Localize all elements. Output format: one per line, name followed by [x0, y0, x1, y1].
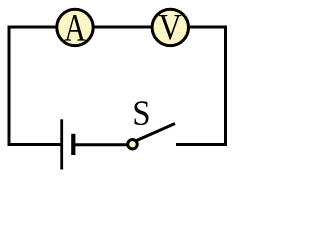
- wire: right vertical: [224, 26, 227, 147]
- voltmeter label V: [159, 15, 181, 40]
- switch S lever: [136, 124, 176, 142]
- label S: [135, 101, 149, 125]
- ammeter A circle: [57, 9, 93, 45]
- wire: bottom left to battery: [8, 143, 61, 146]
- battery long plate (positive): [60, 119, 63, 169]
- voltmeter V circle: [152, 9, 188, 45]
- wire: top horizontal: [8, 26, 228, 29]
- wire: battery to switch pivot: [75, 143, 127, 146]
- wire: left vertical: [8, 26, 11, 147]
- wire: bottom right stub: [176, 143, 227, 146]
- ammeter label A: [65, 15, 86, 41]
- switch S pivot circle: [128, 140, 137, 149]
- battery short plate (negative): [71, 134, 75, 155]
